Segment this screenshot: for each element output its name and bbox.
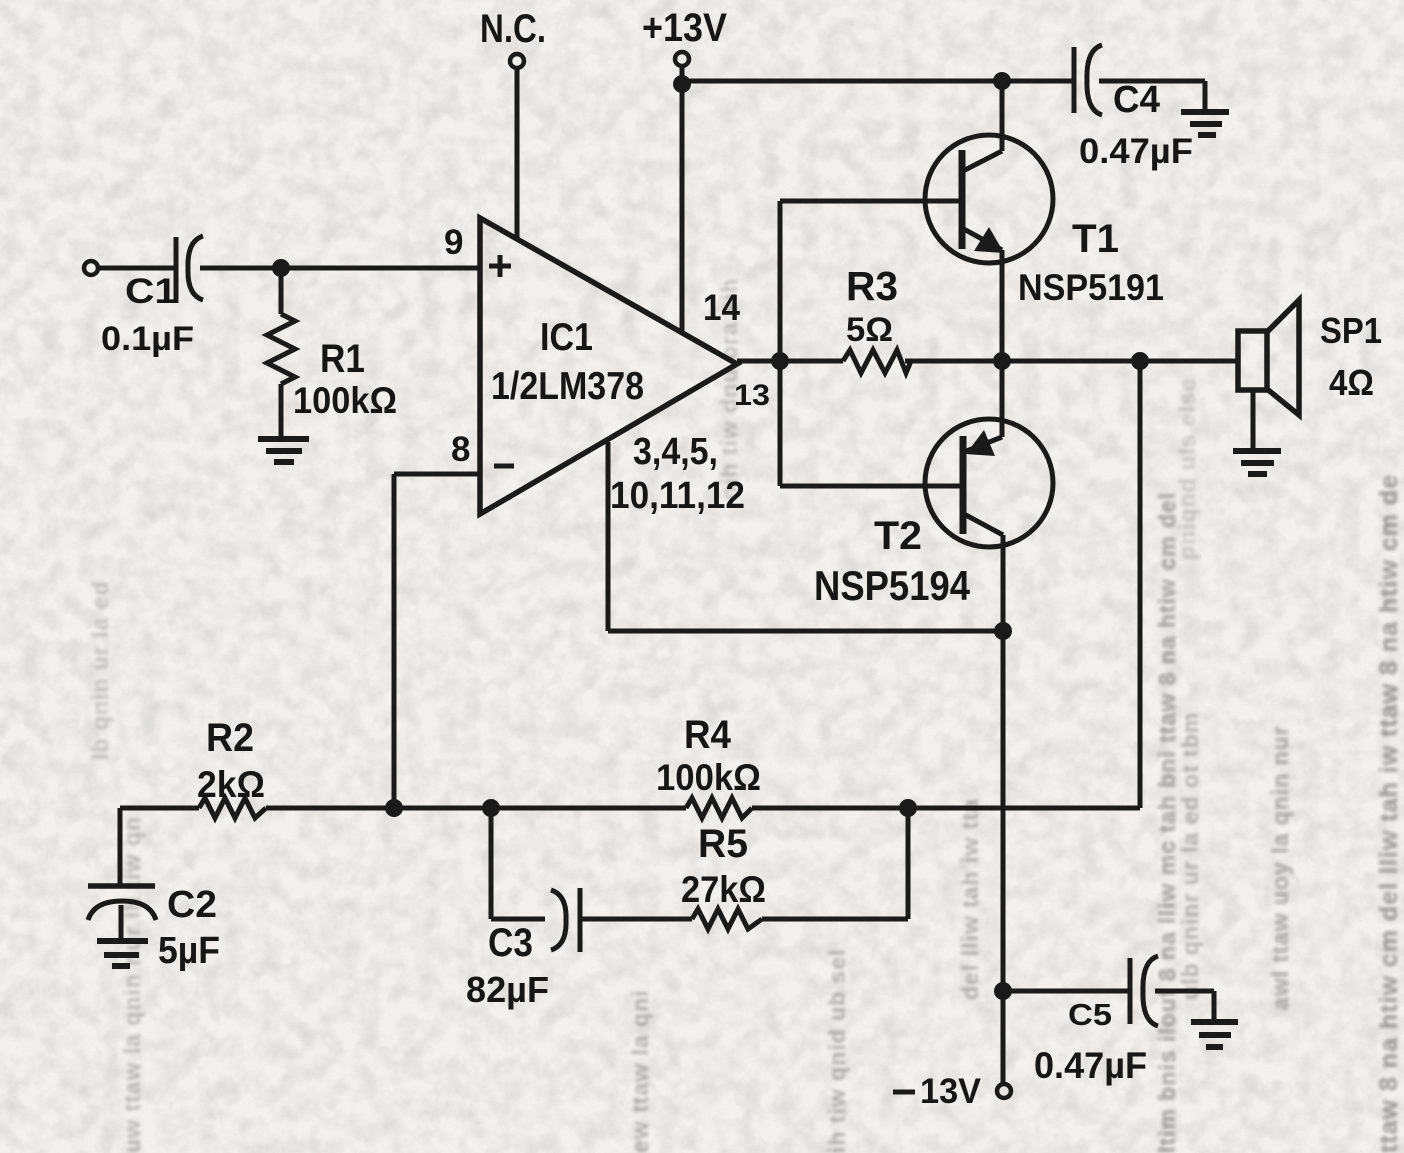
svg-text:0.47µF: 0.47µF — [1079, 132, 1193, 171]
svg-text:13: 13 — [734, 379, 770, 412]
svg-text:100kΩ: 100kΩ — [656, 757, 761, 798]
svg-text:8: 8 — [451, 430, 470, 469]
svg-text:R4: R4 — [684, 713, 732, 757]
svg-text:IC1: IC1 — [540, 316, 593, 359]
svg-text:C3: C3 — [488, 921, 533, 965]
svg-text:1/2LM378: 1/2LM378 — [491, 365, 644, 408]
svg-text:T1: T1 — [1072, 217, 1119, 261]
svg-text:13V: 13V — [920, 1072, 982, 1111]
svg-text:9: 9 — [444, 223, 463, 262]
svg-text:5µF: 5µF — [158, 930, 220, 972]
svg-text:C2: C2 — [167, 884, 217, 926]
svg-text:C1: C1 — [125, 272, 177, 311]
svg-text:100kΩ: 100kΩ — [293, 380, 397, 421]
svg-text:R5: R5 — [698, 822, 748, 866]
svg-text:10,11,12: 10,11,12 — [610, 475, 745, 517]
svg-text:4Ω: 4Ω — [1329, 362, 1374, 403]
svg-text:R2: R2 — [206, 716, 254, 760]
svg-text:27kΩ: 27kΩ — [681, 869, 766, 910]
svg-text:3,4,5,: 3,4,5, — [633, 431, 718, 473]
svg-text:82µF: 82µF — [466, 969, 549, 1010]
svg-text:ih tiw qnid ub sel: ih tiw qnid ub sel — [824, 948, 850, 1153]
svg-text:ttaw 8 na htiw cm del ll: ttaw 8 na htiw cm del lliw tah iw ttaw 8… — [1375, 474, 1403, 1153]
svg-text:NSP5194: NSP5194 — [814, 562, 971, 609]
svg-text:ulb qninr ur la ed ot tb: ulb qninr ur la ed ot tbm — [1177, 712, 1203, 1000]
svg-text:2kΩ: 2kΩ — [197, 764, 265, 805]
svg-text:lb qnin ur la ed: lb qnin ur la ed — [87, 580, 113, 760]
svg-text:pniqnd uls else: pniqnd uls else — [1174, 378, 1200, 560]
svg-text:C5: C5 — [1068, 997, 1112, 1032]
svg-text:C4: C4 — [1113, 79, 1160, 121]
svg-text:0.47µF: 0.47µF — [1034, 1045, 1147, 1086]
svg-text:0.1µF: 0.1µF — [101, 320, 194, 358]
svg-text:awl ttaw uoy la qnin nur: awl ttaw uoy la qnin nur — [1267, 725, 1293, 1010]
svg-text:ew ttaw la qni: ew ttaw la qni — [627, 989, 653, 1153]
svg-text:SP1: SP1 — [1320, 310, 1382, 351]
svg-text:14: 14 — [703, 287, 740, 328]
svg-text:del lliw tah iw tta: del lliw tah iw tta — [957, 798, 983, 1000]
svg-text:N.C.: N.C. — [480, 7, 546, 51]
svg-text:R1: R1 — [320, 337, 365, 381]
svg-text:R3: R3 — [846, 263, 898, 309]
svg-text:+13V: +13V — [642, 6, 727, 50]
svg-text:NSP5191: NSP5191 — [1018, 267, 1164, 308]
svg-text:uw ttaw la qnin nur ih t: uw ttaw la qnin nur ih tiw qn — [119, 816, 145, 1153]
svg-text:T2: T2 — [874, 514, 922, 558]
svg-text:5Ω: 5Ω — [846, 311, 893, 349]
